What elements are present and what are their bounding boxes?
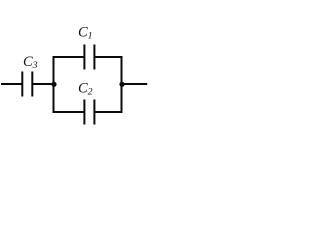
wire bottom rail left segment [53,111,85,113]
wire left bus bar [53,56,55,113]
capacitor C3 [22,72,32,97]
node A junction dot [51,82,56,87]
wire top rail right segment [94,56,122,58]
wire input lead [1,83,23,85]
wire output lead [122,83,148,85]
node B junction dot [119,82,124,87]
wire C3 to node A [32,83,54,85]
wire top rail left segment [53,56,85,58]
svg-text:C2: C2 [78,81,93,98]
capacitor C1 [84,45,94,70]
svg-text:C1: C1 [78,25,93,42]
capacitor C2 [84,100,94,125]
svg-text:C3: C3 [23,54,38,71]
wire bottom rail right segment [94,111,122,113]
wire right bus bar [121,56,123,113]
